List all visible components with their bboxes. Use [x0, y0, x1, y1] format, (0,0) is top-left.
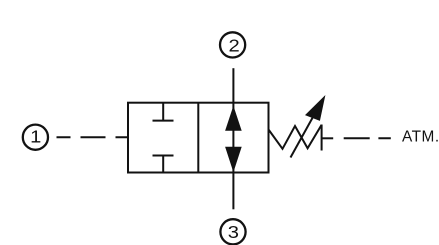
adjustment arrow shaft — [291, 112, 317, 158]
port circle 3 — [220, 219, 245, 244]
svg-text:2: 2 — [228, 36, 239, 56]
svg-text:1: 1 — [30, 128, 41, 148]
wire: valve to port 3 — [232, 173, 234, 210]
valve body envelope — [128, 103, 269, 173]
spring end plate — [321, 125, 323, 151]
flow arrow down — [225, 147, 242, 173]
wire stub from spring plate — [322, 137, 334, 139]
wire: dashed line to atmosphere — [344, 137, 391, 139]
divider between positions — [197, 103, 199, 173]
svg-text:ATM.: ATM. — [402, 128, 439, 145]
port circle 2 — [220, 32, 245, 57]
wire: dashed line port 1 to valve body — [57, 136, 129, 138]
closed-port symbol bottom T — [153, 156, 174, 173]
closed-port symbol top T — [153, 103, 174, 121]
port circle 1 — [23, 125, 48, 150]
svg-text:3: 3 — [228, 223, 239, 243]
adjustment arrow head — [305, 95, 325, 121]
flow path vertical line — [232, 103, 234, 173]
spring zigzag — [269, 125, 322, 149]
flow arrow up — [225, 106, 242, 131]
wire: port 2 to valve — [232, 68, 234, 103]
